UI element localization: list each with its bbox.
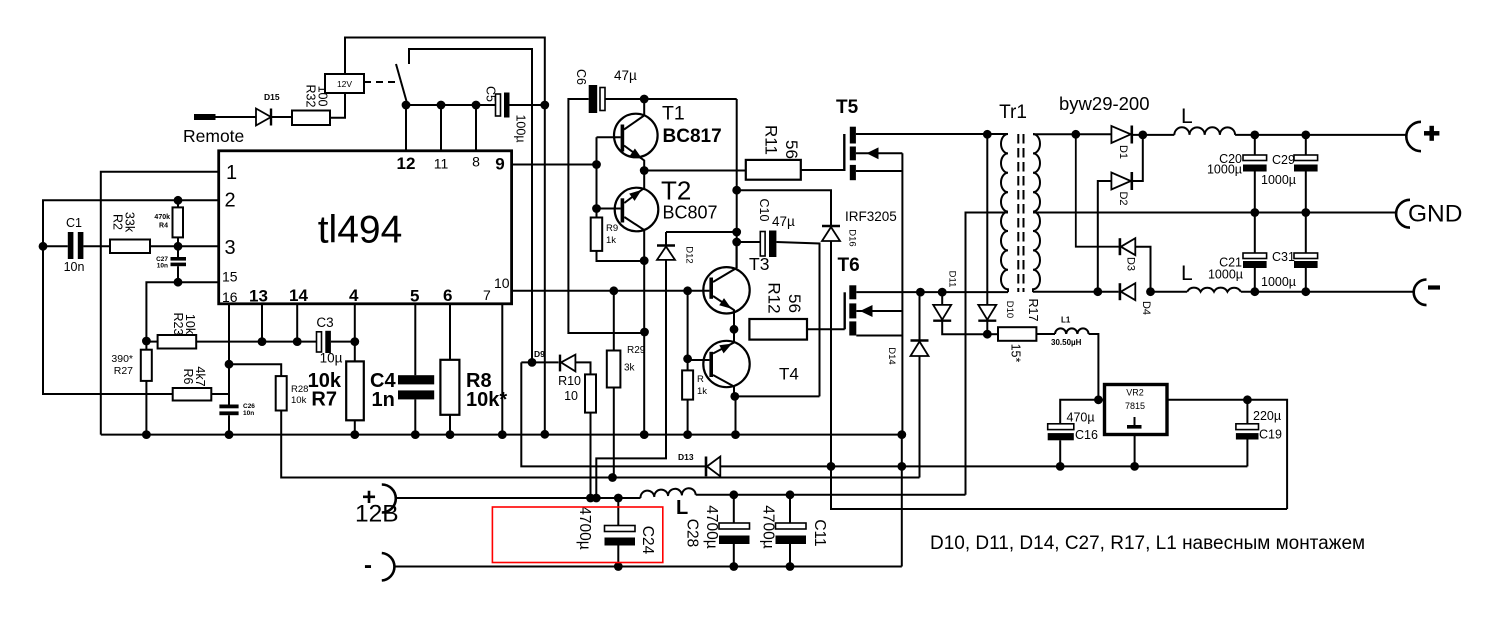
diode D2	[1111, 173, 1130, 190]
svg-text:10: 10	[564, 389, 578, 403]
diode D10	[986, 134, 988, 305]
svg-text:11: 11	[434, 156, 449, 172]
svg-text:C11: C11	[811, 519, 828, 546]
svg-text:-: -	[364, 552, 372, 579]
node D1 D2 join	[1138, 131, 1147, 140]
svg-text:C26: C26	[243, 403, 255, 410]
svg-text:Remote: Remote	[183, 126, 244, 146]
svg-text:R2: R2	[111, 214, 125, 230]
wire R32 to relay coil	[330, 93, 345, 118]
svg-text:5: 5	[410, 287, 419, 306]
wire C1 left column down	[43, 246, 173, 394]
svg-text:33k: 33k	[123, 212, 137, 233]
terminal minus output	[1414, 280, 1427, 306]
relay coil 12V	[325, 74, 364, 93]
wire primary centre tap	[966, 213, 1009, 495]
wire switch fixed contact top	[409, 49, 532, 362]
capacitor C20	[1254, 135, 1256, 155]
svg-text:1: 1	[226, 162, 237, 184]
svg-text:C31: C31	[1272, 250, 1295, 264]
wire T2 collector down to rail	[643, 261, 645, 435]
node D11 top	[938, 288, 947, 297]
node T2 line rail	[640, 430, 649, 439]
wire secondary top to D1	[1033, 133, 1111, 135]
svg-text:R32: R32	[304, 85, 318, 108]
svg-text:BC817: BC817	[663, 126, 722, 147]
wire pin13	[261, 304, 263, 342]
resistor R7	[346, 361, 364, 420]
node C5 right	[540, 101, 549, 110]
svg-text:6: 6	[443, 286, 452, 305]
svg-text:9: 9	[495, 155, 504, 174]
wire pin9 output	[512, 164, 597, 166]
svg-text:R28: R28	[291, 384, 308, 395]
node D9 switch line	[528, 358, 537, 367]
transistor T3	[703, 267, 749, 313]
svg-text:Tr1: Tr1	[999, 102, 1027, 123]
diode D11	[941, 292, 943, 305]
capacitor C26	[219, 405, 238, 409]
svg-text:C6: C6	[574, 69, 588, 85]
wire R9 bottom to T2 collector	[597, 251, 645, 261]
wire to R28 top	[229, 364, 281, 376]
wire C5 to node	[510, 104, 545, 106]
node C29 top	[1301, 131, 1310, 140]
capacitor C16	[1048, 424, 1074, 430]
node C24 minus	[614, 562, 623, 571]
node D12 line plus	[592, 494, 601, 503]
wire pin10 down to T4 base	[687, 291, 689, 371]
resistor R4	[177, 200, 179, 207]
node D13 line T6 gate column	[827, 462, 836, 471]
wire pin6	[449, 304, 451, 360]
node C28 minus	[729, 562, 738, 571]
node D16 branch	[732, 186, 741, 195]
node C31 minus	[1301, 287, 1310, 296]
wire pin14	[296, 304, 298, 342]
wire VR2 gnd pin	[1134, 435, 1136, 467]
svg-text:1n: 1n	[372, 389, 395, 411]
capacitor C19	[1246, 400, 1248, 424]
svg-text:4: 4	[349, 286, 359, 305]
svg-text:10n: 10n	[64, 260, 85, 274]
capacitor C10	[737, 241, 761, 243]
node C6 return join	[640, 328, 649, 337]
svg-text:1k: 1k	[606, 235, 616, 246]
svg-text:D10, D11, D14, C27, R17, L1 на: D10, D11, D14, C27, R17, L1 навесным мон…	[930, 533, 1365, 554]
node C11 plus	[786, 490, 795, 499]
node pin2 R4	[174, 196, 183, 205]
svg-text:2: 2	[225, 190, 236, 212]
svg-text:D11: D11	[947, 271, 958, 288]
node T1 T2 emitters	[640, 166, 649, 175]
resistor R12	[749, 319, 807, 340]
svg-text:13: 13	[249, 287, 268, 306]
wire pin15	[146, 282, 218, 341]
IC U1 tl494 body	[219, 151, 512, 304]
wire secondary bottom to D4	[1033, 291, 1119, 293]
node pin12 top	[402, 101, 411, 110]
wire source column T5 T6	[901, 153, 903, 434]
svg-text:1000µ: 1000µ	[1261, 275, 1296, 289]
wire D1 to plus rail	[1132, 134, 1175, 136]
svg-text:C3: C3	[316, 315, 333, 330]
node D2 anode bottom	[1093, 287, 1102, 296]
node R29 bottom	[608, 473, 617, 482]
node sources D13 line	[897, 462, 906, 471]
resistor R2	[110, 240, 150, 254]
wire pin8	[475, 105, 477, 152]
wire pin4	[354, 304, 356, 362]
node D3 secondary top	[1071, 130, 1080, 139]
wire T4 collector to gate column	[735, 395, 820, 397]
svg-text:470k: 470k	[154, 214, 170, 221]
node C28 plus	[729, 490, 738, 499]
wire C5 node down to ground rail	[544, 105, 546, 434]
node T4 collector	[730, 392, 739, 401]
wire D12 top to C10 column	[666, 231, 737, 233]
node C24 plus	[614, 494, 623, 503]
node C10 branch	[732, 238, 741, 247]
svg-text:C1: C1	[66, 216, 82, 230]
wire pin12	[405, 105, 407, 152]
node pin15	[174, 278, 183, 287]
node C19 top	[1243, 395, 1252, 404]
svg-text:L: L	[1181, 262, 1193, 285]
wire D2 anode to secondary bottom	[1098, 181, 1112, 292]
capacitor C1	[43, 245, 68, 247]
diode D13	[705, 457, 708, 477]
svg-text:D13: D13	[678, 452, 694, 462]
wire C10 right to gate node column	[776, 242, 819, 396]
svg-text:R6: R6	[181, 369, 195, 385]
svg-text:L: L	[676, 497, 688, 519]
wire L to plus terminal	[1235, 134, 1406, 136]
svg-text:4700µ: 4700µ	[576, 506, 593, 549]
capacitor C21	[1254, 213, 1256, 254]
svg-text:12B: 12B	[355, 501, 399, 528]
switch blade	[396, 64, 407, 103]
svg-text:100µ: 100µ	[514, 114, 528, 142]
svg-text:byw29-200: byw29-200	[1059, 93, 1150, 114]
svg-text:3: 3	[225, 237, 236, 259]
svg-text:16: 16	[222, 289, 238, 305]
wire input to VR2	[1098, 399, 1104, 401]
wire minus input line	[396, 566, 902, 568]
svg-text:C28: C28	[684, 519, 701, 547]
capacitor C31	[1305, 213, 1307, 254]
node R30 rail	[683, 430, 692, 439]
node pin13	[258, 337, 267, 346]
wire pin10 output	[512, 290, 710, 292]
svg-text:C29: C29	[1272, 153, 1295, 167]
svg-text:R9: R9	[606, 223, 618, 234]
resistor R8	[440, 360, 459, 415]
svg-text:1000µ: 1000µ	[1208, 268, 1243, 282]
transistor T6 MOSFET	[844, 292, 846, 329]
svg-text:C5: C5	[484, 86, 498, 102]
node pin7 rail	[498, 430, 507, 439]
diode D1	[1111, 126, 1130, 143]
svg-text:7815: 7815	[1125, 401, 1145, 411]
svg-text:R11: R11	[762, 125, 781, 155]
resistor R32	[292, 111, 330, 126]
svg-text:3k: 3k	[624, 363, 636, 374]
wire T6 source	[856, 335, 902, 337]
resistor R10	[585, 374, 596, 412]
svg-text:D12: D12	[684, 246, 695, 263]
wire T5 drain	[856, 133, 1008, 135]
svg-text:R23: R23	[171, 313, 185, 336]
resistor R28	[276, 376, 287, 410]
svg-text:IRF3205: IRF3205	[845, 209, 897, 224]
svg-text:R27: R27	[114, 365, 133, 377]
svg-text:47µ: 47µ	[614, 68, 637, 83]
svg-text:D9: D9	[534, 349, 545, 359]
transistor T4	[703, 341, 749, 387]
wire pin16 column	[228, 304, 230, 405]
capacitor C5	[496, 94, 501, 116]
svg-text:10n: 10n	[157, 263, 168, 270]
node D14 top	[916, 288, 925, 297]
svg-text:T6: T6	[838, 255, 860, 276]
wire input to C16	[1060, 400, 1098, 424]
diode D15	[256, 109, 271, 126]
wire T6 drain	[856, 291, 1008, 293]
svg-text:1000µ: 1000µ	[1207, 163, 1242, 177]
inductor L minus	[1151, 291, 1188, 293]
svg-text:14: 14	[289, 286, 308, 305]
capacitor C28	[733, 495, 735, 523]
svg-text:L1: L1	[1061, 316, 1071, 325]
wire D3 anode down	[1135, 247, 1150, 292]
T6 substrate arrow	[856, 310, 902, 312]
connector Remote terminal bar	[194, 114, 216, 120]
node pin9 base tie	[592, 160, 601, 169]
wire supply row to C5	[406, 104, 496, 106]
resistor R17	[987, 333, 998, 335]
wire secondary tap to GND	[1033, 212, 1396, 214]
svg-text:56: 56	[785, 294, 804, 313]
transformer Tr1 secondary	[1033, 134, 1040, 292]
svg-text:390*: 390*	[111, 353, 133, 365]
svg-text:1k: 1k	[697, 386, 707, 397]
node C20 top	[1250, 131, 1259, 140]
diode D16	[822, 225, 840, 227]
wire relay top to top rail	[345, 38, 545, 106]
wire R2 to pin3	[150, 245, 219, 247]
svg-text:470µ: 470µ	[1067, 411, 1095, 425]
node R10 plus	[586, 494, 595, 503]
resistor R30 base 1k	[682, 370, 693, 399]
node pin8 top	[472, 101, 481, 110]
svg-text:10µ: 10µ	[320, 351, 343, 366]
transistor T1 BC817	[614, 114, 658, 158]
svg-text:C16: C16	[1075, 428, 1098, 442]
node D10 bottom	[983, 330, 992, 339]
wire emitters to R11	[644, 170, 746, 172]
red box highlight	[492, 507, 662, 563]
node pin3	[174, 242, 183, 251]
inductor L1	[1036, 333, 1055, 335]
transformer Tr1 primary	[1001, 134, 1008, 292]
node C21 minus	[1250, 287, 1259, 296]
svg-text:15*: 15*	[1009, 344, 1023, 363]
diode D9	[521, 361, 558, 363]
svg-text:T4: T4	[779, 365, 799, 384]
svg-text:R29: R29	[627, 345, 646, 356]
wire C6 right to T1 collector node	[605, 98, 737, 100]
wire D9 left drop to D13 line	[521, 362, 1247, 466]
node R8 rail	[446, 430, 455, 439]
wire L to minus terminal	[1241, 291, 1414, 293]
ground rail	[101, 434, 902, 436]
svg-text:R10: R10	[558, 374, 581, 388]
svg-text:tl494: tl494	[318, 209, 403, 252]
wire C6 node down column	[736, 99, 738, 268]
svg-text:R7: R7	[311, 388, 337, 410]
diode D14	[919, 292, 921, 340]
wire D9 to R10	[575, 362, 590, 374]
resistor R27	[145, 341, 147, 350]
wire to D16 top	[737, 190, 831, 226]
svg-text:10: 10	[494, 275, 510, 291]
node D10 top	[983, 130, 992, 139]
node C4 rail	[411, 430, 420, 439]
svg-text:10k: 10k	[291, 395, 307, 406]
capacitor C6	[589, 85, 598, 113]
wire D15 to R32	[271, 116, 292, 118]
node T1 collector top	[640, 95, 649, 104]
regulator VR2 7815	[1105, 385, 1168, 435]
node C16 bottom	[1056, 462, 1065, 471]
transistor T5 MOSFET	[843, 134, 845, 171]
inductor L plus	[1174, 127, 1235, 135]
capacitor C11	[789, 495, 791, 523]
node pin10 T4 branch	[683, 286, 692, 295]
svg-text:T3: T3	[749, 254, 769, 274]
node pin4 C3	[350, 337, 359, 346]
capacitor C3	[317, 332, 322, 352]
node C26 rail	[225, 430, 234, 439]
svg-text:4700µ: 4700µ	[703, 505, 720, 548]
inductor L choke	[640, 488, 695, 498]
node T2 base	[592, 204, 601, 213]
wire L1 to VR2 input	[1089, 334, 1099, 400]
wire sources down to minus line	[901, 435, 903, 567]
node pin10 R29 branch	[609, 286, 618, 295]
svg-text:4700µ: 4700µ	[760, 505, 777, 548]
diode D12	[665, 232, 667, 246]
svg-text:D10: D10	[1004, 301, 1015, 318]
wire base column T1 T2	[596, 137, 598, 217]
wire T4 collector to rail	[735, 396, 737, 434]
wire pin11	[440, 105, 442, 152]
wire feedback row to C3	[196, 341, 316, 343]
wire C3 to pin4 column	[331, 341, 355, 343]
capacitor C24	[617, 498, 619, 526]
capacitor C27	[177, 246, 179, 257]
node R7 rail	[350, 430, 359, 439]
svg-text:D2: D2	[1117, 191, 1129, 205]
wire choke to centre tap feed	[696, 494, 966, 496]
svg-text:C24: C24	[639, 526, 656, 555]
resistor R29	[613, 291, 615, 351]
svg-text:BC807: BC807	[663, 203, 718, 223]
resistor R11	[746, 160, 801, 180]
svg-text:T1: T1	[662, 103, 685, 125]
node D4 anode	[1146, 287, 1155, 296]
svg-text:D15: D15	[264, 92, 280, 102]
node pin16 R28 branch	[225, 360, 234, 369]
node C20 gnd	[1250, 208, 1259, 217]
wire pin2	[43, 200, 219, 246]
svg-text:10k*: 10k*	[466, 389, 507, 411]
svg-text:D3: D3	[1125, 257, 1137, 271]
svg-text:30.50µH: 30.50µH	[1051, 338, 1082, 347]
node T4 rail	[731, 430, 740, 439]
node R23 left	[142, 337, 151, 346]
svg-text:L: L	[1181, 105, 1193, 128]
node C5 line rail	[540, 430, 549, 439]
T5 substrate arrow	[856, 152, 903, 154]
svg-text:D4: D4	[1140, 301, 1152, 315]
wire C1 to R2	[83, 245, 110, 247]
svg-text:56: 56	[782, 140, 801, 159]
wire T5 source	[856, 170, 903, 172]
svg-text:T5: T5	[836, 97, 859, 118]
wire plus input line	[396, 497, 641, 499]
svg-text:15: 15	[222, 269, 238, 285]
terminal GND output	[1396, 200, 1410, 228]
node R27 bottom rail	[142, 430, 151, 439]
node D12 branch	[732, 228, 741, 237]
wire Remote to D15	[216, 116, 257, 118]
diode D4	[1119, 283, 1122, 300]
capacitor C4	[398, 375, 434, 384]
resistor R6	[173, 388, 212, 401]
svg-text:10k: 10k	[183, 314, 197, 335]
svg-text:D14: D14	[886, 347, 897, 364]
node sources rail	[897, 430, 906, 439]
transistor T2 BC807	[615, 188, 659, 232]
svg-text:GND: GND	[1408, 201, 1462, 228]
svg-text:VR2: VR2	[1126, 388, 1144, 398]
node C11 minus	[786, 562, 795, 571]
node R12 left	[730, 325, 739, 334]
wire VR2 output	[1167, 400, 1287, 509]
svg-text:1000µ: 1000µ	[1261, 173, 1296, 187]
wire D2 cathode up	[1132, 135, 1143, 181]
svg-text:C10: C10	[757, 199, 771, 222]
dashed link relay to switch	[364, 81, 396, 83]
wire pin5	[414, 304, 416, 375]
svg-text:R17: R17	[1026, 299, 1040, 322]
wire pin1	[101, 172, 219, 435]
diode D3	[1076, 134, 1119, 246]
svg-text:R4: R4	[159, 223, 168, 230]
node T2 collector	[640, 256, 649, 265]
svg-text:12V: 12V	[337, 79, 352, 89]
svg-text:R: R	[697, 374, 704, 385]
svg-text:D1: D1	[1117, 145, 1129, 159]
wire R12 to T6 gate	[807, 328, 845, 330]
wire R28 bottom to sense line	[281, 411, 919, 478]
node C1 left	[39, 242, 48, 251]
terminal plus output	[1406, 122, 1421, 151]
svg-text:8: 8	[472, 154, 480, 170]
svg-text:R12: R12	[765, 282, 784, 313]
